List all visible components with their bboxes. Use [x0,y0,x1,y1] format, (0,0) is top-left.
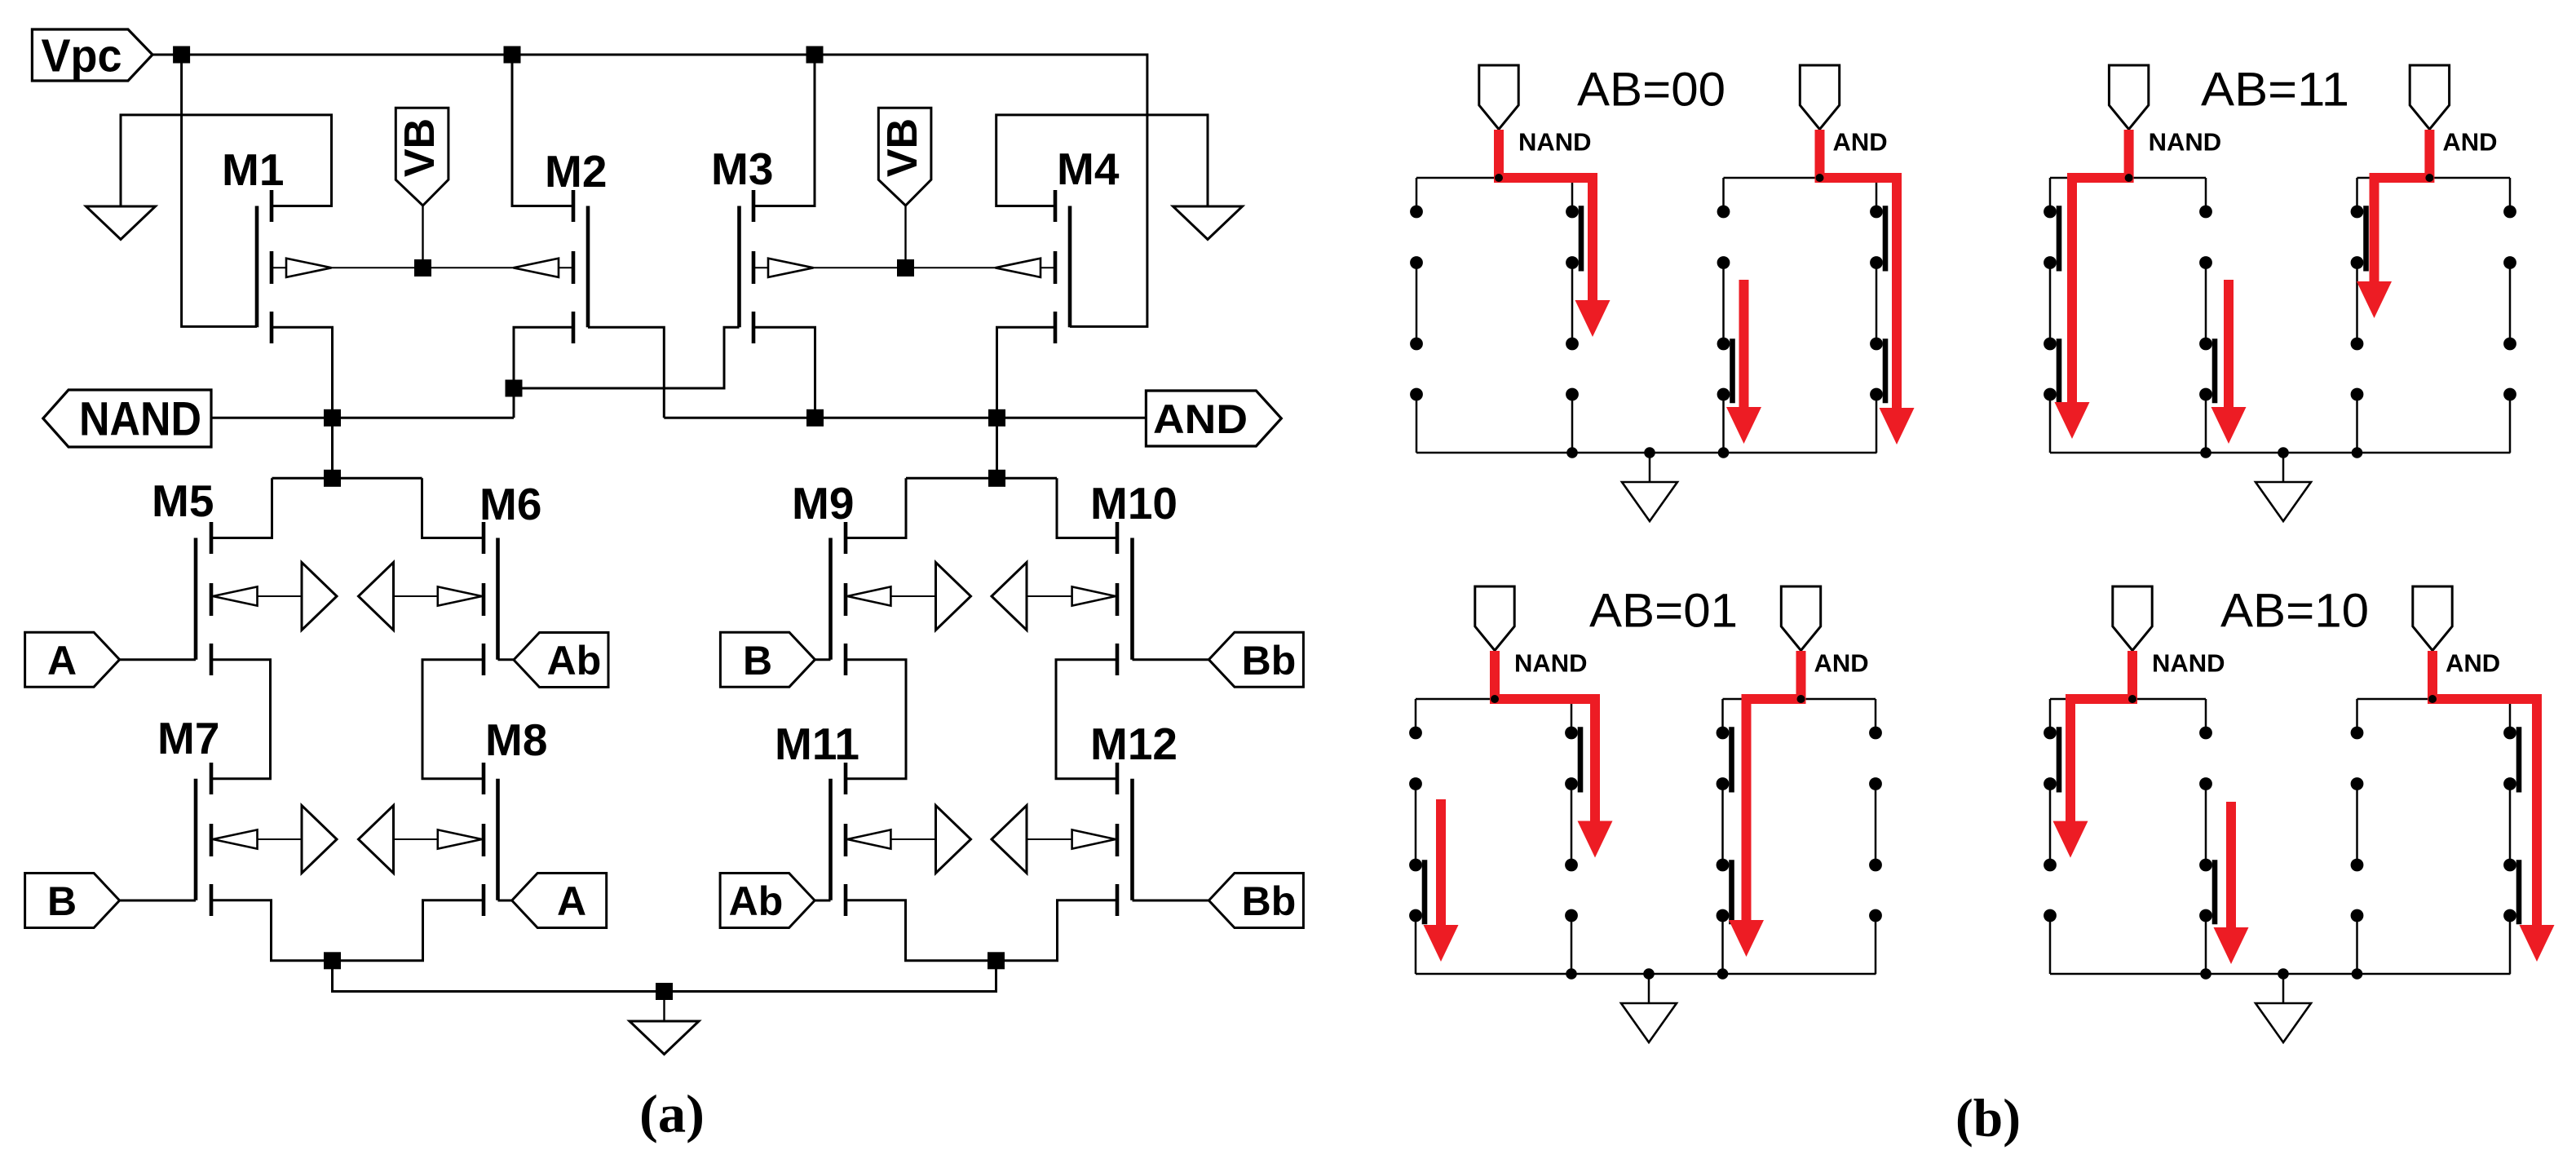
ground AB01 [1621,1003,1677,1042]
transistor M1 [257,190,272,343]
svg-text:Bb: Bb [1242,878,1297,924]
supply flask AND AB11 [2410,65,2449,130]
transistor M8 AB10 (on) [2212,860,2218,924]
wire AB01 ground stem [1648,974,1650,1003]
flag A (M5 gate) [25,632,120,687]
label AND AB00 [1833,128,1888,157]
label M12 [1090,719,1178,769]
svg-text:B: B [743,638,772,683]
flag AND [1146,391,1281,446]
transistor M6 AB01 (on) [1578,727,1584,792]
svg-text:(b): (b) [1955,1089,2021,1148]
wire AB01 AND ladder frame [1723,699,1876,974]
transistor M12 AB10 (on) [2516,860,2522,924]
svg-text:(a): (a) [639,1085,705,1144]
caption (b) [1955,1089,2021,1148]
label AND AB01 [1814,649,1869,678]
junction NAND node [324,409,341,427]
label M1 [222,144,284,195]
power flag Vpc [32,29,152,82]
supply flask AND AB10 [2413,586,2452,651]
label AND AB11 [2442,128,2497,157]
wire NAND [211,417,514,419]
svg-text:M4: M4 [1057,144,1120,194]
transistor M12 AB00 (on) [1883,338,1889,403]
label NAND AB01 [1514,649,1588,678]
transistor M6 AB00 (on) [1579,206,1584,271]
label AB=01 [1589,585,1738,638]
label M9 [792,478,854,529]
body arrow M7-M8 inner right [359,806,394,874]
transistor M4 [1055,190,1070,343]
ground AB10 [2256,1003,2311,1042]
body arrow M9 [847,586,890,605]
wire VB left stem [422,206,423,268]
junction Vpc-M2 [504,46,521,64]
junction dot AB11 NAND stem [2125,174,2133,182]
svg-text:AND: AND [2446,649,2500,678]
svg-text:AND: AND [1814,649,1869,678]
wire M12 source to rail [996,900,1117,961]
terminal dots AB11 NAND ladder [2044,206,2212,401]
label M7 [157,713,219,763]
transistor M2 [573,190,588,343]
wire ground stem [663,992,665,1022]
current path AND left branch AB00 [1726,280,1761,444]
current path NAND left branch AB01 [1424,799,1459,962]
current path AND discharge AB00 [1820,130,1915,445]
current path NAND discharge AB11 [2055,130,2129,439]
wire AB01 shared ground rail [1416,973,1876,975]
svg-text:NAND: NAND [1518,128,1592,157]
junction dot AB00 AND stem [1816,174,1824,182]
wire VB right stem [904,206,906,268]
junction dots AB01 ground rail [1566,968,1728,980]
junction dots AB11 ground rail [2200,447,2362,458]
wire M10 source / M12 drain [1056,660,1117,779]
svg-text:AB=00: AB=00 [1577,64,1725,117]
junction dots AB10 ground rail [2200,968,2362,980]
junction dot AB11 AND stem [2425,174,2433,182]
svg-text:M7: M7 [157,713,219,763]
wire AND tee to M9-M10 drains [846,418,1117,537]
body arrow M7-M8 inner left [302,806,337,874]
transistor M12 [1117,763,1133,916]
body arrow M5 [213,586,258,605]
transistor M9 AB11 (on) [2363,206,2369,271]
transistor M11 AB01 (on) [1729,860,1734,924]
supply flask AND AB01 [1781,586,1820,651]
svg-text:AND: AND [2442,128,2497,157]
supply flask NAND AB01 [1475,586,1514,651]
svg-text:NAND: NAND [79,393,201,446]
wire M4 drain loop [996,115,1208,206]
wire AB10 NAND ladder frame [2050,699,2206,974]
transistor M9 AB01 (on) [1729,727,1734,792]
wire Ab to M11 gate [815,900,830,902]
supply flask NAND AB00 [1479,65,1518,130]
svg-text:M2: M2 [545,146,607,197]
svg-text:AB=11: AB=11 [2201,64,2349,117]
junction dot AB00 NAND stem [1495,174,1503,182]
terminal dots AB11 AND ladder [2351,206,2516,401]
transistor M8 AB11 (on) [2212,338,2218,403]
flag VB left [395,108,448,206]
transistor M7 AB01 (on) [1422,860,1428,924]
body arrow M11 [847,829,890,848]
wire M1 drain loop [121,115,332,206]
wire body line M9-M10 [846,595,1117,597]
flag VB right [878,108,931,206]
svg-text:VB: VB [879,118,926,177]
label NAND AB10 [2152,649,2225,678]
junction dot AB01 NAND stem [1491,695,1499,703]
svg-text:VB: VB [396,118,444,177]
terminal dots AB00 NAND ladder [1410,206,1579,401]
transistor M11 [831,763,846,916]
caption (a) [639,1085,705,1144]
wire AB10 shared ground rail [2050,973,2511,975]
transistor M7 [196,763,211,916]
flag A (M8 gate) [512,874,607,928]
wire AB11 shared ground rail [2050,452,2511,454]
terminal dots AB00 AND ladder [1717,206,1883,401]
junction dot AB10 AND stem [2428,695,2437,703]
wire AB10 AND ladder frame [2357,699,2511,974]
transistor M5 [196,522,211,675]
label M6 [479,479,541,529]
svg-text:AND: AND [1833,128,1888,157]
transistor M5 AB10 (on) [2057,727,2062,792]
wire Bb to M10 gate [1133,658,1209,661]
wire ground rail [333,961,996,992]
ground AB00 [1622,482,1677,521]
transistor M9 [831,522,846,675]
wire VB body line M3-M4 [753,267,1055,268]
wire Ab to M6 gate [498,658,515,661]
label AND AB10 [2446,649,2500,678]
label AB=00 [1577,64,1725,117]
label M8 [485,714,547,765]
wire NAND tee to M5-M6 drains [211,478,484,537]
junction NAND tee [324,470,341,487]
wire AB10 ground stem [2282,974,2285,1003]
svg-text:M3: M3 [711,144,773,194]
wire AND [664,417,1146,419]
wire AB11 AND ladder frame [2357,178,2511,453]
label M11 [775,719,859,769]
svg-text:M1: M1 [222,144,284,195]
current path NAND right branch AB11 [2211,280,2247,444]
junction Vpc-M1 [173,46,190,64]
flag B (M9 gate) [720,632,815,687]
wire M11 source to rail [846,900,996,961]
wire AB00 NAND ladder frame [1416,178,1572,453]
supply flask NAND AB11 [2109,65,2148,130]
wire M2 drain riser [512,55,573,206]
wire A to M5 gate [120,658,196,661]
transistor M10 AB10 (on) [2516,727,2522,792]
ground AB11 [2256,482,2311,521]
junction ground rail [656,983,673,1000]
svg-text:Ab: Ab [547,638,602,683]
flag Ab (M11 gate) [720,874,815,928]
ground top right [1173,206,1243,240]
label M5 [152,476,214,526]
current path NAND discharge AB10 [2053,651,2133,858]
svg-text:NAND: NAND [2152,649,2225,678]
transistor M11 AB00 (on) [1730,338,1735,403]
wire VB body line M1-M2 [272,267,573,268]
junction dot AB01 AND stem [1797,695,1805,703]
body arrow M9-M10 inner right [992,563,1027,630]
junction sources left [324,952,341,969]
wire Vpc to M1 gate [182,55,257,326]
wire M6 source / M8 drain [422,660,484,779]
transistor M3 [740,190,754,343]
wire body line M11-M12 [846,838,1117,840]
svg-text:M12: M12 [1090,719,1178,769]
body arrow M1 [286,259,332,277]
current path NAND right branch AB10 [2214,802,2249,964]
svg-text:M5: M5 [152,476,214,526]
svg-text:Bb: Bb [1242,638,1297,683]
label M3 [711,144,773,194]
svg-text:M11: M11 [775,719,859,769]
body arrow M11-M12 inner left [936,806,971,874]
current path NAND discharge AB01 [1495,651,1613,858]
wire A to M8 gate [498,900,512,902]
junction dots AB00 ground rail [1566,447,1729,458]
junction VB right [897,259,914,276]
ground top left [86,206,156,240]
label AB=10 [2220,585,2369,638]
wire AB11 ground stem [2282,453,2285,482]
wire M5 source / M7 drain [211,660,271,779]
body arrow M4 [996,259,1041,277]
supply flask NAND AB10 [2113,586,2152,651]
junction sources right [988,952,1005,969]
body arrow M3 [768,259,814,277]
current path NAND discharge AB00 [1499,130,1611,337]
wire AB00 ground stem [1649,453,1651,482]
label M4 [1057,144,1120,194]
junction M3 source / AND [806,409,824,427]
junction Vpc-M3 [806,46,824,64]
junction VB left [414,259,431,276]
terminal dots AB01 NAND ladder [1409,727,1578,922]
label AB=11 [2201,64,2349,117]
wire M8 source to rail [333,900,484,961]
wire B to M9 gate [815,658,830,661]
svg-text:NAND: NAND [1514,649,1588,678]
label M10 [1090,478,1178,529]
svg-text:A: A [47,638,77,683]
svg-text:Vpc: Vpc [42,30,122,82]
label NAND AB11 [2149,128,2222,157]
wire M9 source / M11 drain [846,660,906,779]
ground bottom center [630,1021,699,1055]
svg-text:M8: M8 [485,714,547,765]
body arrow M9-M10 inner left [936,563,971,630]
transistor M10 AB00 (on) [1883,206,1889,271]
wire body line M7-M8 [211,838,484,840]
wire Vpc rail to M4 gate [152,55,1147,326]
terminal dots AB10 AND ladder [2351,727,2516,922]
transistor M6 [484,522,498,675]
body arrow M5-M6 inner left [302,563,337,630]
terminal dots AB10 NAND ladder [2044,727,2212,922]
junction AND node [988,409,1005,427]
wire M2 source [514,327,573,418]
terminal dots AB01 AND ladder [1717,727,1882,922]
body arrow M5-M6 inner right [359,563,394,630]
wire AB01 NAND ladder frame [1416,699,1571,974]
wire Bb to M12 gate [1133,900,1209,902]
body arrow M2 [514,259,559,277]
body arrow M6 [438,586,482,605]
svg-text:M6: M6 [479,479,541,529]
transistor M10 [1117,522,1133,675]
flag Ab (M6 gate) [514,633,608,688]
current path AND discharge AB01 [1729,651,1801,957]
transistor M8 [484,763,498,916]
wire body line M5-M6 [211,595,484,597]
body arrow M11-M12 inner right [992,806,1027,874]
body arrow M10 [1072,586,1116,605]
wire AB00 AND ladder frame [1724,178,1877,453]
supply flask AND AB00 [1800,65,1839,130]
wire M3 gate to NAND link [514,327,740,388]
junction M2 source / M3 gate crosslink [506,380,523,397]
label M2 [545,146,607,197]
current path AND discharge AB11 [2357,130,2429,318]
flag Bb (M12 gate) [1208,874,1303,928]
wire M7 source to rail [211,900,333,961]
wire AB00 shared ground rail [1416,452,1877,454]
flag NAND [43,390,211,447]
wire M3 drain riser [753,55,815,206]
body arrow M12 [1072,829,1116,848]
wire M4 source [997,327,1056,418]
junction AND tee [988,470,1005,487]
svg-text:AB=10: AB=10 [2220,585,2369,638]
transistor M7 AB11 (on) [2057,338,2062,403]
svg-text:M9: M9 [792,478,854,529]
label NAND AB00 [1518,128,1592,157]
wire AB11 NAND ladder frame [2050,178,2206,453]
svg-text:NAND: NAND [2149,128,2222,157]
wire M2 gate to AND link [588,327,664,418]
wire B to M7 gate [120,900,196,902]
junction dot AB10 NAND stem [2128,695,2136,703]
svg-text:A: A [557,878,586,924]
svg-text:AB=01: AB=01 [1589,585,1738,638]
body arrow M8 [438,829,482,848]
wire M1 source to NAND tee [272,327,333,478]
transistor M5 AB11 (on) [2057,206,2062,271]
svg-text:B: B [47,878,77,924]
flag B (M7 gate) [25,874,120,928]
svg-text:Ab: Ab [729,878,784,924]
wire M3 source [753,327,815,418]
svg-text:AND: AND [1153,396,1248,442]
current path AND discharge AB10 [2432,651,2555,962]
body arrow M7 [213,829,258,848]
flag Bb (M10 gate) [1208,632,1303,687]
svg-text:M10: M10 [1090,478,1178,529]
